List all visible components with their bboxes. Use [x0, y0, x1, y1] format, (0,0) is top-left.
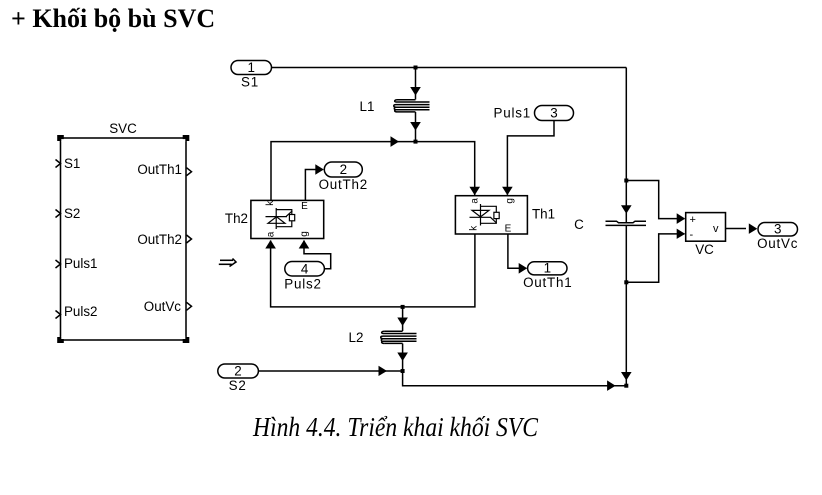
svg-text:OutTh1: OutTh1 [137, 162, 182, 177]
svg-text:a: a [266, 231, 277, 237]
svg-text:S1: S1 [241, 75, 259, 90]
svg-text:a: a [470, 198, 481, 204]
svg-text:L1: L1 [360, 99, 375, 114]
svg-text:S1: S1 [64, 156, 80, 171]
svg-text:4: 4 [301, 262, 309, 277]
svg-text:-: - [690, 229, 694, 241]
svg-text:Th1: Th1 [532, 207, 555, 222]
svg-text:Puls2: Puls2 [284, 277, 322, 292]
svg-text:Puls1: Puls1 [494, 106, 532, 121]
svg-text:OutTh2: OutTh2 [137, 232, 182, 247]
svg-text:1: 1 [247, 60, 254, 75]
svg-text:E: E [301, 201, 308, 212]
svg-text:Puls1: Puls1 [64, 256, 98, 271]
svg-text:OutVc: OutVc [757, 236, 798, 251]
svg-text:C: C [574, 217, 584, 232]
svg-text:1: 1 [544, 261, 551, 276]
svg-text:S2: S2 [229, 378, 247, 393]
svg-text:3: 3 [550, 106, 557, 121]
svg-text:3: 3 [774, 222, 781, 237]
svg-text:E: E [505, 224, 512, 235]
svg-text:+ Khối bộ bù SVC: + Khối bộ bù SVC [11, 4, 215, 33]
svg-text:g: g [299, 231, 310, 237]
svg-text:g: g [504, 198, 515, 204]
svg-text:Puls2: Puls2 [64, 304, 98, 319]
svg-text:2: 2 [234, 364, 241, 379]
svg-text:SVC: SVC [109, 121, 137, 136]
svg-text:OutVc: OutVc [144, 299, 182, 314]
svg-text:S2: S2 [64, 206, 80, 221]
svg-text:OutTh2: OutTh2 [319, 177, 368, 192]
svg-text:Th2: Th2 [225, 211, 248, 226]
svg-text:2: 2 [340, 162, 347, 177]
svg-text:L2: L2 [349, 330, 364, 345]
svg-text:v: v [713, 223, 719, 235]
svg-text:VC: VC [695, 242, 714, 257]
svg-text:OutTh1: OutTh1 [523, 275, 572, 290]
svg-text:Hình 4.4. Triển khai khối SVC: Hình 4.4. Triển khai khối SVC [252, 412, 539, 442]
svg-text:+: + [690, 214, 696, 226]
